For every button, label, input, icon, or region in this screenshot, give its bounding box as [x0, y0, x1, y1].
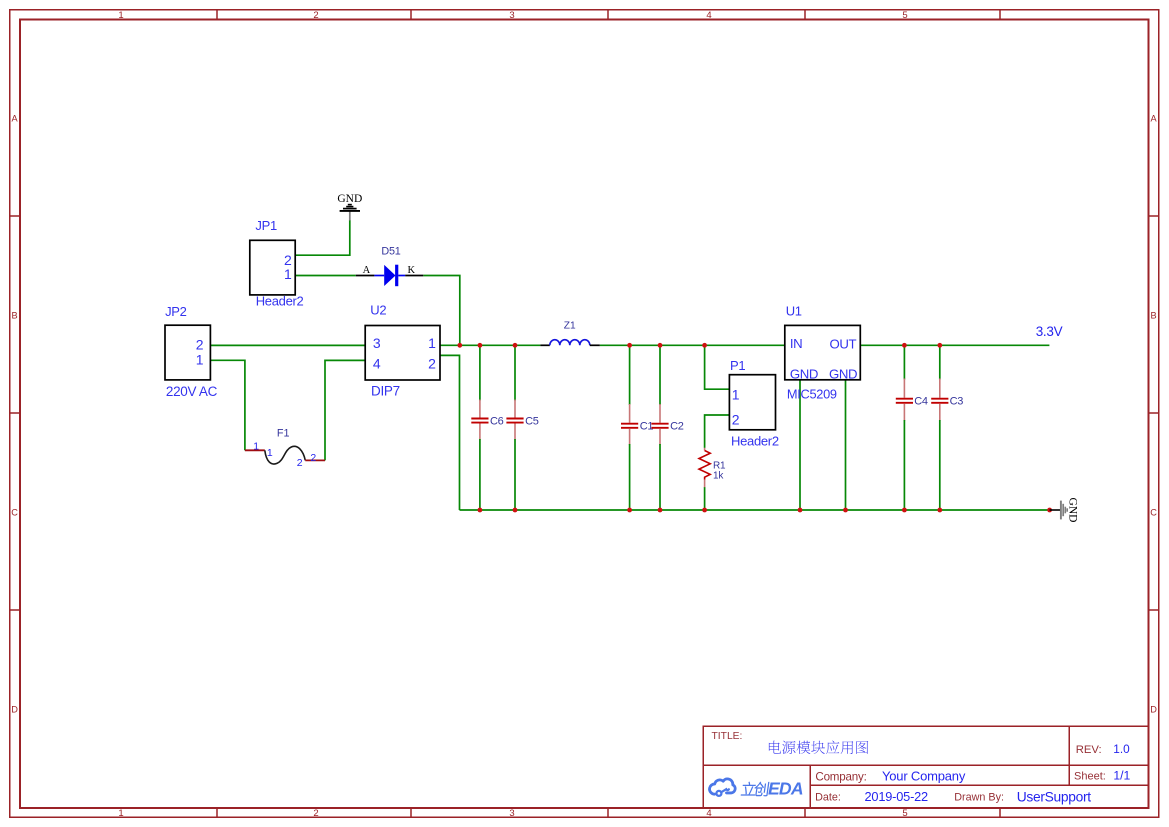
inductor Z1 — [540, 340, 599, 346]
junction at 629.6,345.3 — [627, 343, 632, 348]
junction at 800,510 — [798, 508, 803, 513]
junction at 515,510 — [513, 508, 518, 513]
wire JP2 pin2 to U2 pin3 — [210, 344, 365, 346]
svg-text:Header2: Header2 — [256, 294, 304, 309]
svg-text:2: 2 — [313, 10, 318, 21]
svg-text:2: 2 — [732, 412, 740, 428]
svg-text:REV:: REV: — [1076, 744, 1102, 756]
svg-text:JP1: JP1 — [255, 218, 277, 233]
svg-text:C5: C5 — [525, 415, 539, 427]
wire U1 GND left pin to ground rail — [799, 380, 801, 510]
junction at 1049.6,510 — [1047, 508, 1052, 513]
wire VIN rail to P1 pin1 — [705, 345, 730, 389]
junction at 904.4,345.3 — [902, 343, 907, 348]
ground symbol (top, near JP1) — [340, 205, 360, 211]
svg-text:C3: C3 — [950, 395, 964, 407]
wire U1 OUT 3.3V net — [860, 344, 1049, 346]
svg-text:1.0: 1.0 — [1113, 742, 1130, 756]
svg-text:K: K — [408, 265, 416, 276]
svg-text:UserSupport: UserSupport — [1017, 789, 1092, 804]
svg-text:Header2: Header2 — [731, 433, 779, 448]
resistor R1 — [699, 448, 710, 487]
svg-text:A: A — [12, 113, 19, 123]
svg-text:U2: U2 — [370, 303, 386, 318]
capacitor C2 — [651, 345, 683, 510]
IC U1 box — [785, 325, 861, 379]
svg-text:1: 1 — [196, 351, 204, 367]
svg-text:4: 4 — [706, 808, 711, 819]
svg-text:D51: D51 — [381, 245, 400, 257]
svg-text:1: 1 — [118, 808, 123, 819]
svg-text:1: 1 — [253, 441, 259, 453]
EasyEDA (LCEDA) logo cloud — [710, 779, 736, 796]
svg-text:IN: IN — [790, 336, 802, 351]
svg-text:220V AC: 220V AC — [166, 384, 218, 399]
svg-text:1: 1 — [284, 266, 292, 282]
capacitor C1 — [621, 345, 653, 510]
svg-text:P1: P1 — [730, 358, 745, 373]
connector JP1 box — [250, 240, 295, 295]
wire JP1 pin2 to GND — [295, 220, 350, 255]
svg-text:A: A — [1151, 113, 1158, 123]
junction at 629.6,510 — [627, 508, 632, 513]
wire P1 pin2 down to R1 — [705, 415, 730, 448]
svg-text:Drawn By:: Drawn By: — [954, 792, 1004, 804]
svg-text:5: 5 — [902, 10, 907, 21]
svg-text:Company:: Company: — [815, 771, 866, 784]
junction at 660,345.3 — [658, 343, 663, 348]
diode D51 — [356, 265, 424, 287]
svg-text:Date:: Date: — [815, 792, 841, 804]
svg-text:GND: GND — [829, 367, 857, 382]
svg-text:2: 2 — [310, 452, 316, 464]
svg-text:GND: GND — [790, 367, 818, 382]
svg-text:D: D — [11, 704, 18, 714]
svg-text:TITLE:: TITLE: — [712, 731, 743, 742]
svg-text:C6: C6 — [490, 415, 504, 427]
svg-text:1/1: 1/1 — [1113, 768, 1130, 782]
fuse F1 — [245, 446, 325, 464]
junction at 939.8,345.3 — [937, 343, 942, 348]
svg-text:C4: C4 — [914, 395, 928, 407]
junction at 459.8,345.3 — [457, 343, 462, 348]
svg-text:2: 2 — [313, 808, 318, 819]
connector P1 box — [729, 375, 775, 430]
svg-text:Your Company: Your Company — [882, 768, 966, 783]
wire U2 pin1 to Z1 left — [440, 344, 540, 346]
svg-text:C1: C1 — [640, 420, 654, 432]
wire D51 cathode down to VIN rail — [423, 276, 460, 346]
svg-text:4: 4 — [706, 10, 711, 21]
wire U2 pin2 down to ground rail — [440, 355, 460, 510]
svg-text:Z1: Z1 — [564, 320, 576, 331]
svg-text:2: 2 — [196, 336, 204, 352]
ground rail wire — [460, 509, 1050, 511]
svg-text:DIP7: DIP7 — [371, 383, 400, 398]
svg-text:D: D — [1150, 704, 1157, 714]
logo text 立创 — [741, 782, 769, 796]
svg-text:2019-05-22: 2019-05-22 — [865, 789, 929, 804]
junction at 660,510 — [658, 508, 663, 513]
connector JP2 box — [165, 325, 210, 380]
schematic title 电源模块应用图 — [769, 741, 781, 754]
title block — [703, 726, 1149, 808]
capacitor C5 — [506, 345, 538, 510]
svg-text:3.3V: 3.3V — [1036, 324, 1063, 339]
svg-text:3: 3 — [373, 335, 381, 351]
svg-text:3: 3 — [509, 808, 514, 819]
svg-text:JP2: JP2 — [165, 304, 187, 319]
svg-text:OUT: OUT — [830, 336, 857, 351]
svg-text:5: 5 — [902, 808, 907, 819]
junction at 479.9,345.3 — [478, 343, 483, 348]
junction at 904.4,510 — [902, 508, 907, 513]
junction at 704.6,510 — [702, 508, 707, 513]
svg-text:C: C — [11, 507, 18, 517]
svg-text:B: B — [1151, 310, 1157, 320]
svg-text:2: 2 — [428, 355, 436, 371]
frame column/row tick marks — [216, 10, 218, 20]
svg-text:B: B — [12, 310, 18, 320]
wire Z1 right to U1 IN — [600, 344, 785, 346]
wire JP2 pin1 down to fuse F1 — [210, 360, 245, 450]
IC U2 box — [365, 326, 440, 381]
wire JP1 pin1 to D51 anode — [295, 275, 356, 277]
junction at 515,345.3 — [513, 343, 518, 348]
gray pin stem of top ground — [349, 211, 351, 221]
svg-text:Sheet:: Sheet: — [1074, 770, 1106, 782]
wire fuse F1 to U2 pin4 — [325, 360, 365, 460]
svg-text:4: 4 — [373, 355, 381, 371]
wire U1 GND right pin to ground rail — [845, 380, 847, 510]
junction at 939.8,510 — [937, 508, 942, 513]
capacitor C3 — [931, 345, 963, 510]
svg-text:U1: U1 — [786, 304, 802, 319]
svg-text:EDA: EDA — [768, 779, 803, 799]
svg-text:MIC5209: MIC5209 — [787, 386, 837, 401]
svg-text:1: 1 — [732, 386, 740, 402]
svg-text:3: 3 — [509, 10, 514, 21]
junction at 479.9,510 — [478, 508, 483, 513]
svg-text:GND: GND — [337, 193, 362, 205]
capacitor C4 — [896, 345, 928, 510]
svg-text:1: 1 — [267, 447, 273, 459]
junction at 704.6,345.3 — [702, 343, 707, 348]
wire R1 bottom to ground rail — [704, 487, 706, 510]
svg-text:2: 2 — [297, 457, 303, 469]
svg-text:1k: 1k — [713, 470, 724, 481]
capacitor C6 — [471, 345, 503, 510]
svg-text:C: C — [1150, 507, 1157, 517]
svg-text:F1: F1 — [277, 428, 290, 440]
svg-text:1: 1 — [428, 335, 436, 351]
svg-text:1: 1 — [118, 10, 123, 21]
junction at 845.5,510 — [843, 508, 848, 513]
svg-text:GND: GND — [1067, 498, 1079, 523]
ground symbol (right end of ground rail) — [1050, 509, 1061, 511]
svg-text:C2: C2 — [670, 420, 684, 432]
svg-text:A: A — [363, 265, 371, 276]
